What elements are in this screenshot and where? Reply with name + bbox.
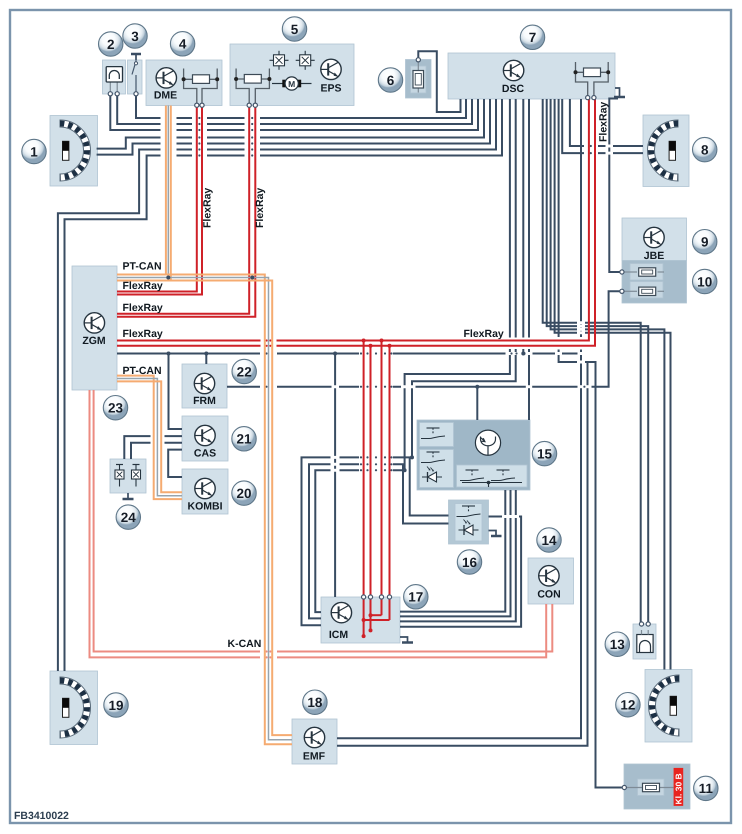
svg-text:KOMBI: KOMBI (188, 501, 223, 513)
svg-text:EPS: EPS (320, 83, 341, 95)
svg-text:FlexRay: FlexRay (123, 302, 163, 314)
svg-text:FlexRay: FlexRay (464, 328, 504, 340)
svg-text:FRM: FRM (193, 395, 216, 407)
svg-text:22: 22 (237, 364, 252, 379)
svg-text:PT-CAN: PT-CAN (123, 365, 162, 377)
svg-text:9: 9 (701, 235, 709, 250)
svg-text:2: 2 (107, 37, 115, 52)
svg-text:ZGM: ZGM (82, 335, 106, 347)
svg-text:21: 21 (236, 432, 252, 447)
svg-text:DME: DME (154, 90, 177, 102)
svg-text:5: 5 (291, 22, 299, 37)
svg-text:M: M (288, 79, 295, 89)
svg-text:FlexRay: FlexRay (123, 280, 163, 292)
svg-text:15: 15 (537, 446, 553, 461)
svg-text:8: 8 (701, 142, 709, 157)
svg-text:17: 17 (408, 590, 423, 605)
svg-text:6: 6 (387, 73, 395, 88)
svg-text:FB3410022: FB3410022 (14, 810, 69, 822)
svg-text:1: 1 (30, 144, 38, 159)
svg-text:20: 20 (236, 486, 251, 501)
svg-text:FlexRay: FlexRay (598, 102, 610, 142)
svg-text:K-CAN: K-CAN (228, 638, 262, 650)
svg-text:3: 3 (131, 29, 139, 44)
svg-text:10: 10 (697, 274, 712, 289)
svg-text:EMF: EMF (303, 751, 326, 763)
svg-text:7: 7 (529, 30, 537, 45)
svg-text:19: 19 (108, 698, 123, 713)
svg-text:16: 16 (462, 555, 478, 570)
svg-text:4: 4 (179, 37, 187, 52)
svg-text:PT-CAN: PT-CAN (123, 261, 162, 273)
svg-text:FlexRay: FlexRay (254, 188, 266, 228)
svg-text:Kl. 30 B: Kl. 30 B (673, 773, 683, 804)
svg-text:FlexRay: FlexRay (202, 188, 214, 228)
svg-text:FlexRay: FlexRay (123, 328, 163, 340)
svg-text:12: 12 (620, 698, 635, 713)
svg-text:DSC: DSC (502, 83, 525, 95)
svg-text:JBE: JBE (644, 250, 664, 262)
svg-text:11: 11 (699, 781, 714, 796)
svg-text:CON: CON (537, 589, 560, 601)
svg-text:18: 18 (307, 695, 323, 710)
svg-text:14: 14 (541, 533, 557, 548)
svg-text:24: 24 (121, 510, 137, 525)
svg-text:CAS: CAS (194, 448, 216, 460)
svg-text:ICM: ICM (329, 629, 349, 641)
svg-text:13: 13 (610, 637, 626, 652)
svg-text:23: 23 (108, 401, 124, 416)
